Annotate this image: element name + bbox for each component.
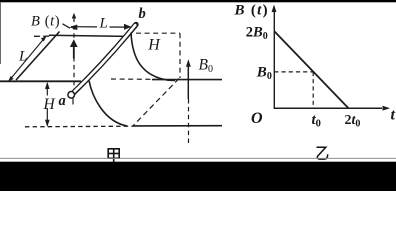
svg-text:H: H bbox=[43, 96, 56, 113]
svg-text:B (t): B (t) bbox=[234, 3, 269, 19]
svg-text:2B0: 2B0 bbox=[246, 25, 268, 43]
svg-text:t0: t0 bbox=[312, 112, 321, 130]
svg-text:t: t bbox=[391, 107, 396, 124]
svg-text:L: L bbox=[99, 15, 108, 31]
svg-text:B (t): B (t) bbox=[31, 13, 60, 29]
svg-text:a: a bbox=[59, 93, 66, 109]
svg-text:b: b bbox=[139, 6, 146, 22]
svg-text:B0: B0 bbox=[256, 65, 272, 83]
svg-text:L: L bbox=[18, 48, 27, 64]
svg-text:O: O bbox=[251, 110, 263, 127]
svg-text:2t0: 2t0 bbox=[345, 113, 361, 130]
svg-text:H: H bbox=[147, 36, 161, 53]
svg-text:B0: B0 bbox=[199, 56, 213, 75]
